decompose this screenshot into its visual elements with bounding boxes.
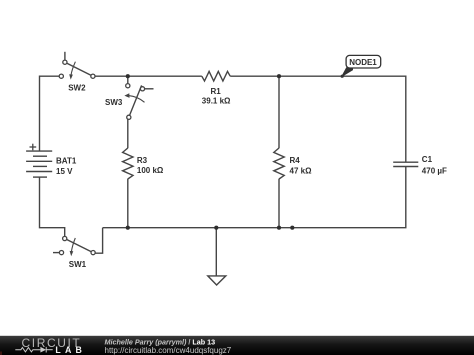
switch SW3	[124, 84, 153, 120]
junction dot top rail / R4	[277, 74, 281, 78]
svg-text:LAB: LAB	[55, 345, 86, 355]
footer bar	[0, 336, 474, 355]
svg-text:SW3: SW3	[105, 98, 123, 107]
logo motif diode triangle	[40, 347, 46, 353]
switch SW2	[59, 52, 95, 80]
wire SW1 riser	[95, 228, 102, 254]
logo motif resistor-diode	[15, 347, 52, 353]
svg-text:R3: R3	[137, 156, 148, 165]
wire R4 top connection	[278, 76, 280, 148]
wire SW3 stub from top rail	[127, 76, 129, 83]
svg-text:100 kΩ: 100 kΩ	[137, 166, 164, 175]
svg-text:R1: R1	[211, 87, 222, 96]
resistor R3	[123, 148, 133, 179]
wire C1 bottom to bottom rail	[103, 167, 406, 228]
junction dot bottom rail / R3	[126, 226, 130, 230]
capacitor C1	[393, 162, 418, 166]
junction dot bottom rail / ground	[214, 226, 218, 230]
ground	[208, 228, 226, 285]
battery plus sign	[30, 144, 37, 151]
svg-text:SW2: SW2	[68, 83, 86, 92]
wire battery bottom to SW1	[40, 177, 65, 236]
resistor R4	[274, 148, 284, 179]
junction dot top rail / SW3	[126, 74, 130, 78]
wire left vertical (battery top to top rail)	[40, 76, 60, 151]
junction dot bottom rail / R4	[277, 226, 281, 230]
footer red corner artifact	[0, 352, 2, 355]
wire R3 bottom connection	[127, 179, 129, 228]
switch SW1	[53, 236, 95, 256]
node NODE1 flag	[341, 55, 381, 77]
svg-text:47 kΩ: 47 kΩ	[290, 167, 313, 176]
junction dot bottom rail segment	[290, 226, 294, 230]
svg-text:BAT1: BAT1	[56, 157, 77, 166]
svg-text:15 V: 15 V	[56, 167, 73, 176]
svg-text:http://circuitlab.com/cw4udqsf: http://circuitlab.com/cw4udqsfqugz7	[105, 346, 232, 355]
svg-text:SW1: SW1	[69, 260, 87, 269]
svg-text:NODE1: NODE1	[349, 58, 377, 67]
svg-text:470 µF: 470 µF	[422, 167, 447, 176]
svg-text:R4: R4	[290, 156, 301, 165]
battery BAT1	[26, 151, 52, 177]
wire R1 to right corner	[230, 76, 406, 162]
wire R4 bottom connection	[278, 179, 280, 228]
wire R3 top connection (SW3 common to R3)	[127, 119, 129, 148]
svg-text:39.1 kΩ: 39.1 kΩ	[202, 96, 231, 105]
resistor R1	[202, 71, 230, 81]
svg-text:C1: C1	[422, 155, 433, 164]
wire top rail SW2 to R1	[95, 75, 202, 77]
